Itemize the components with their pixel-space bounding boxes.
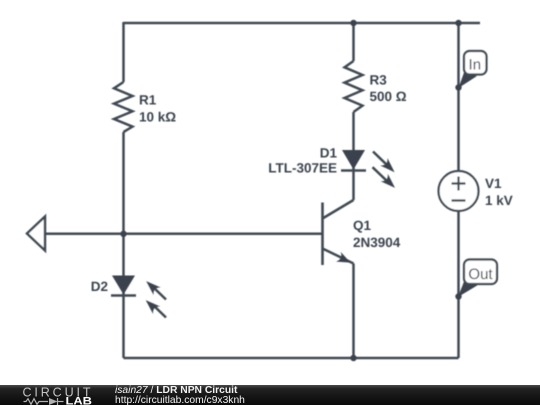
- svg-text:500 Ω: 500 Ω: [370, 89, 407, 104]
- svg-text:V1: V1: [485, 176, 502, 191]
- svg-text:R1: R1: [139, 93, 157, 108]
- svg-text:2N3904: 2N3904: [353, 235, 401, 250]
- svg-text:LTL-307EE: LTL-307EE: [268, 161, 337, 176]
- svg-text:Out: Out: [468, 266, 493, 283]
- svg-text:Q1: Q1: [353, 218, 372, 233]
- svg-text:LAB: LAB: [66, 395, 93, 405]
- svg-text:1 kV: 1 kV: [485, 193, 513, 208]
- svg-text:In: In: [469, 57, 482, 74]
- svg-text:D2: D2: [91, 279, 108, 294]
- svg-text:R3: R3: [370, 73, 388, 88]
- svg-text:D1: D1: [320, 146, 338, 161]
- svg-text:10 kΩ: 10 kΩ: [139, 110, 176, 125]
